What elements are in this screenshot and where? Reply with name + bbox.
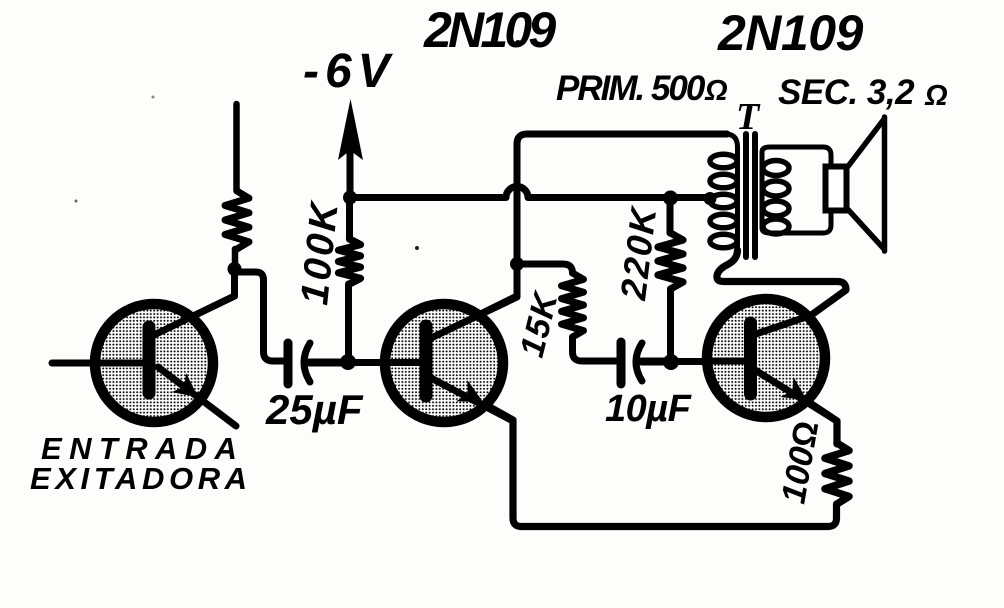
svg-text:2N109: 2N109	[423, 2, 556, 58]
svg-text:-6V: -6V	[303, 45, 396, 98]
transformer primary loops	[710, 154, 737, 168]
svg-text:10µF: 10µF	[605, 388, 693, 430]
transformer secondary loops	[763, 161, 789, 176]
wire: Q3 emitter to 100R	[810, 403, 837, 444]
wire: input top vertical	[233, 104, 240, 191]
wire: 15K bottom elbow to C2	[573, 337, 617, 361]
transformer secondary spine + wires to speaker	[762, 147, 831, 233]
svg-text:Ω: Ω	[924, 80, 948, 112]
node: rail to primary blob	[704, 192, 717, 205]
transistor Q2 (2N109 driver)	[380, 297, 517, 422]
resistor R-input (base bias, unlabeled)	[225, 191, 249, 249]
svg-text:Ω: Ω	[704, 75, 728, 107]
node B junction dot (Q2 base)	[340, 354, 356, 370]
svg-text:2N109: 2N109	[717, 5, 864, 61]
node A junction dot	[228, 262, 242, 276]
wire: node C to 15K	[517, 264, 573, 273]
transformer T primary top curve + spine	[727, 134, 738, 250]
svg-text:25µF: 25µF	[265, 386, 364, 433]
wire: node B to Q2 base	[348, 359, 424, 366]
node D junction dot (Q3 base)	[663, 354, 679, 370]
wire: C2 to node D	[641, 358, 667, 366]
scan speck	[75, 200, 78, 203]
dot in 2N10.9	[515, 40, 521, 46]
capacitor C2 10uF: curved plate	[636, 343, 642, 381]
transistor Q3 (2N109 output)	[705, 299, 837, 421]
speaker magnet box	[826, 167, 847, 211]
transistor Q1 (input driver)	[52, 296, 236, 426]
capacitor C1 25uF: curved plate	[304, 343, 310, 382]
svg-text:SEC. 3,2: SEC. 3,2	[778, 73, 915, 112]
wire: primary bottom tail to Q3 collector	[717, 250, 846, 335]
transformer core laminations	[743, 134, 749, 257]
wire: Q2 emitter to bottom rail to 100R	[486, 405, 837, 527]
wire: C1 to node B	[309, 359, 344, 367]
speaker cone	[846, 117, 885, 251]
resistor 100R	[825, 443, 849, 504]
resistor 220K	[667, 200, 674, 233]
capacitor C1 25uF: left plate	[284, 343, 293, 384]
wire: Q1 collector riser	[152, 266, 235, 336]
wire: -6V rail with hop over vertical	[350, 187, 708, 198]
resistor 15K	[562, 273, 584, 337]
node: rail/220K junction dot	[663, 191, 678, 206]
node: -6V rail junction dot	[343, 191, 357, 205]
wire: transformer top line to Q2 collector vertical	[430, 134, 727, 339]
resistor 100K	[346, 201, 353, 239]
svg-text:PRIM. 500: PRIM. 500	[556, 69, 706, 108]
wire: resistor bottom to node A	[232, 249, 239, 266]
wire: node D to Q3 base	[671, 358, 748, 365]
node C junction dot (15K tap)	[510, 257, 524, 271]
wire: node A to 25uF cap (L-shape)	[238, 272, 283, 361]
svg-text:EXITADORA: EXITADORA	[30, 461, 252, 496]
svg-text:T: T	[736, 96, 761, 138]
capacitor C2 10uF: left plate	[617, 342, 626, 384]
-6V supply arrow	[347, 150, 354, 196]
scan speck	[152, 96, 155, 99]
scan speck	[415, 246, 419, 250]
